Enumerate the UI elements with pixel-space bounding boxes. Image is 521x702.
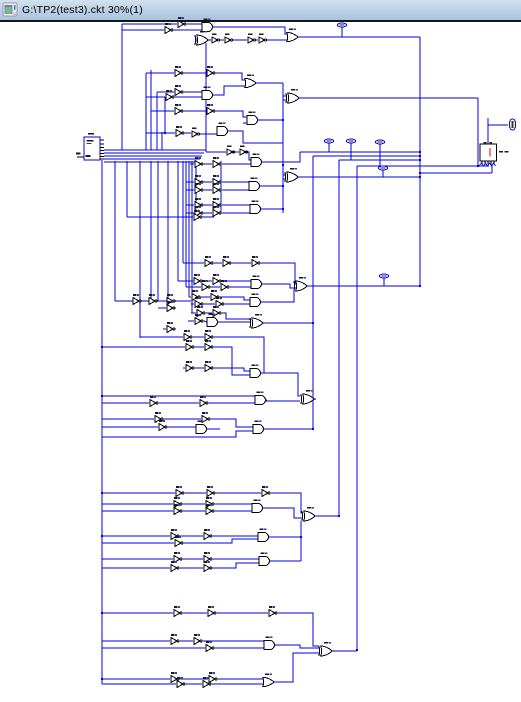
wire U43A out: [168, 426, 196, 428]
wire U20C out: [204, 189, 212, 191]
wire U45A out: [185, 492, 206, 494]
junction dot: [101, 678, 103, 680]
wire E3b in: [186, 212, 194, 214]
wire U23A out: [204, 204, 212, 206]
wire to U52A in1: [213, 558, 259, 560]
inverter U33A: [197, 306, 205, 316]
wire U49C out to U50A in2: [184, 539, 258, 543]
inverter U26A: [205, 256, 213, 266]
wire U40B out to U41B in2: [209, 402, 255, 404]
junction dot: [282, 119, 284, 121]
wire bus line B3: [104, 155, 202, 157]
wire row B1 in: [102, 346, 185, 348]
wire vertical x151: [150, 70, 152, 150]
wire row B3b in: [102, 402, 149, 404]
junction dot: [338, 515, 340, 517]
XOR gate U11A: [286, 89, 301, 103]
inverter U38B: [205, 361, 213, 371]
wire U50A out to wrap: [269, 536, 301, 538]
wire row A4 input: [146, 132, 175, 134]
wire row C3b in: [102, 542, 174, 544]
wire row E4: [127, 216, 193, 218]
wire U29A out to N1: [307, 285, 420, 287]
wire U53C out to U56A in1: [278, 613, 319, 646]
wire U26B out: [232, 262, 251, 264]
inverter U9B: [166, 90, 174, 100]
wire row F3b in: [191, 303, 194, 305]
wire comb vertical x178: [177, 161, 179, 281]
wire vertical x146: [145, 73, 147, 150]
AND gate U21A: [249, 177, 261, 190]
inverter U36C: [205, 330, 213, 340]
wire row B3a feed: [102, 395, 250, 397]
inverter U23A: [195, 198, 203, 208]
inverter U54A: [171, 634, 179, 644]
inverter U53B: [208, 606, 216, 616]
wire U27A out: [203, 280, 212, 282]
inverter U42A: [155, 412, 163, 422]
inverter U51B: [204, 552, 212, 562]
AND gate U43B: [196, 420, 208, 433]
wire N2 to U22A in2: [283, 178, 285, 180]
inverter U9A: [175, 85, 183, 95]
wire display pin drop: [491, 164, 493, 173]
junction dot: [101, 612, 103, 614]
inverter U23D: [213, 206, 221, 216]
wire U28A out to U29A in2: [262, 284, 296, 288]
XOR gate U35A: [250, 314, 265, 328]
junction dot: [356, 649, 358, 651]
wire U25A out: [203, 216, 214, 218]
XOR gate U41A: [301, 390, 316, 404]
wire U24A out to N2: [261, 208, 283, 210]
wire U38B out to U39A in1: [214, 368, 250, 371]
wire wrap vertical x301: [300, 521, 302, 561]
wire U9A out to U10A in1: [184, 91, 202, 93]
wire row D1 in: [102, 612, 173, 614]
wire U54B out to U55A in1: [203, 640, 264, 642]
wire U46C out: [183, 510, 205, 512]
inverter U31C: [195, 297, 203, 307]
inverter U25A: [194, 210, 202, 220]
wire U33C out: [204, 321, 207, 322]
wire U17B out to U19A in1: [246, 152, 251, 160]
wire row A3 input: [151, 110, 174, 112]
inverter U23B: [213, 198, 221, 208]
wire U21A out to N2: [260, 185, 283, 187]
inverter U46A: [174, 497, 182, 507]
inverter U49C: [175, 536, 183, 546]
wire U7A out: [184, 72, 206, 74]
wire row D2b in: [102, 647, 205, 649]
wire U44A out to x313: [264, 428, 313, 430]
XOR gate U5A: [195, 31, 210, 45]
wire U3A out to U4A in1: [213, 27, 287, 34]
wire net A2: [122, 29, 164, 31]
wire to connector J1: [488, 124, 508, 126]
wire U48A out to x339: [315, 515, 339, 517]
wire U42A out: [164, 418, 201, 420]
wire U1A out to U3A in1: [187, 23, 202, 25]
wire U33B out to U34A: [222, 313, 251, 319]
wire U23C out: [204, 212, 212, 214]
junction dot: [282, 164, 284, 166]
IC U16 chip body: [84, 133, 100, 160]
AND gate U32A: [250, 293, 262, 306]
inverter U37B: [205, 340, 213, 350]
inverter U6C: [248, 34, 256, 43]
wire U57A out: [180, 678, 208, 680]
OR gate U8A: [245, 74, 258, 87]
wire U53B out: [217, 612, 268, 614]
7-segment display DISP1: [480, 142, 509, 165]
inverter U6B: [225, 34, 233, 43]
OR gate U58A: [263, 673, 276, 686]
inverter U45C: [262, 486, 270, 496]
AND gate U34A: [207, 313, 219, 326]
inverter U57D: [203, 677, 211, 687]
wire U38A out: [195, 367, 204, 369]
junction dot: [282, 185, 284, 187]
inverter U7B: [207, 66, 215, 76]
wire U19A out to L1: [262, 152, 300, 162]
wire B3a to U41B in1: [250, 395, 255, 397]
wire U5A out: [210, 39, 211, 41]
IC U16 left pin: [76, 153, 84, 158]
wire vertical x162: [161, 132, 163, 150]
wire U26A out: [214, 262, 222, 264]
wire row F5 in: [140, 336, 183, 338]
wire long vertical x313: [312, 156, 314, 430]
wire U22A out to N1: [298, 176, 420, 178]
wire comb vertical x115: [114, 161, 116, 301]
junction dot: [101, 535, 103, 537]
wire to U58A in2: [212, 683, 263, 685]
AND gate U10A: [202, 86, 214, 99]
wire net L5: [420, 172, 492, 174]
wire U52A out to wrap: [270, 560, 301, 562]
junction dot: [312, 428, 314, 430]
inverter U37A: [186, 340, 194, 350]
AND gate U19A: [251, 153, 263, 166]
inverter U17A: [227, 146, 235, 155]
inverter U53A: [174, 606, 182, 616]
junction dot: [419, 151, 421, 153]
wire U57C out: [186, 683, 202, 685]
wire long vertical x357: [356, 166, 358, 651]
wire U6D out to U4A in2: [266, 39, 287, 41]
app icon: [2, 2, 20, 18]
inverter U57B: [209, 672, 217, 682]
wire U13A in2 stub: [243, 122, 247, 124]
wire U58A out to U56A in2: [274, 653, 319, 682]
inverter U18B: [213, 157, 221, 167]
inverter U30D: [133, 294, 141, 304]
wire U20A out: [204, 181, 212, 183]
wire comb vertical x186: [185, 161, 187, 287]
inverter U46D: [206, 504, 214, 514]
wire U4A out to node N1: [298, 36, 420, 38]
wire to U24A in1: [222, 204, 250, 206]
wire U30C in: [158, 307, 166, 309]
inverter U40A: [150, 396, 158, 406]
wire row C4b in: [102, 567, 170, 569]
inverter U6D: [259, 34, 267, 43]
wire N2 to U11A in1: [283, 95, 286, 97]
wire row C2a in: [102, 503, 173, 505]
wire net L3: [339, 159, 420, 161]
inverter U12A: [175, 104, 183, 114]
inverter U31A: [192, 290, 200, 300]
wire net A1 top: [122, 23, 177, 25]
wire U41A out junction: [313, 399, 315, 400]
wire row B2 in: [183, 367, 185, 369]
wire to U24A in2: [222, 212, 250, 214]
inverter U36A: [167, 322, 175, 332]
inverter U54C: [206, 641, 214, 651]
junction dot: [164, 132, 166, 134]
wire U54C out to U55A in2: [215, 647, 264, 649]
inverter U20A: [195, 175, 203, 185]
wire comb vertical x183: [182, 161, 184, 263]
wire U14A out: [185, 132, 191, 134]
inverter U17B: [240, 146, 248, 155]
inverter U20D: [213, 183, 221, 193]
inverter U31B: [211, 290, 219, 300]
wire U32A out wrap: [261, 289, 294, 302]
wire U15A out to N2: [228, 131, 283, 143]
inverter U49B: [204, 529, 212, 539]
AND gate U52A: [259, 552, 271, 565]
wire comb vertical x221: [220, 161, 222, 213]
wire display top stem: [487, 118, 489, 144]
wire to U28A in1: [222, 280, 251, 282]
inverter U27B: [213, 274, 221, 284]
inverter U33B: [213, 306, 221, 316]
wire U6C out: [255, 39, 258, 41]
junction dot: [101, 346, 103, 348]
wire bus line B4: [104, 158, 200, 160]
wire N2 to U11A in2: [283, 99, 286, 101]
wire long vertical x102: [101, 160, 103, 684]
inverter U1A: [178, 17, 186, 27]
XOR gate U29A: [294, 277, 309, 291]
wire to U32A in1: [220, 297, 250, 300]
wire net L4 display bus: [357, 165, 489, 167]
wire U35A out to x313: [264, 322, 313, 324]
inverter U27A: [194, 274, 202, 284]
inverter U51D: [204, 561, 212, 571]
inverter U38A: [186, 361, 194, 371]
wire comb vertical x168: [167, 161, 169, 308]
wire vertical x206 to bus: [205, 43, 207, 152]
junction dot: [419, 176, 421, 178]
wire U6B out: [232, 39, 247, 41]
wire U41B out to U41A in2: [266, 400, 300, 402]
inverter U54B: [194, 634, 202, 644]
inverter U14A: [176, 126, 184, 136]
wire row C1 in: [102, 492, 175, 494]
inverter U57A: [171, 672, 179, 682]
wire U8A out to node N2: [256, 82, 283, 84]
AND gate U50A: [258, 528, 270, 541]
wire row A2a input: [146, 72, 174, 74]
wire row B4a in: [102, 418, 154, 420]
wire row B5 wrap: [102, 431, 253, 437]
wire U11A out to display net: [299, 97, 478, 99]
wire bus line B1: [104, 149, 206, 151]
junction dot: [419, 159, 421, 161]
wire E3a in: [186, 204, 194, 206]
wire U45B out: [216, 492, 261, 494]
wire to U52A in2: [213, 563, 259, 568]
wire U36C out down to band B: [214, 337, 264, 373]
junction dot: [101, 395, 103, 397]
wire U31A out: [201, 296, 210, 298]
wire to U21A in1: [222, 181, 249, 183]
wire comb vertical x127: [126, 161, 128, 217]
wire U46A out: [183, 503, 205, 505]
inverter U51A: [174, 552, 182, 562]
wire row B4b in: [102, 426, 158, 428]
wire U27C out: [211, 286, 220, 288]
wire U55A out to U56A: [276, 645, 319, 648]
AND gate U28A: [251, 275, 263, 288]
wire row C3a in: [102, 535, 170, 537]
AND gate U24A: [250, 200, 262, 213]
power flag F6: [379, 274, 388, 286]
wire net L2: [313, 155, 420, 157]
inverter U57C: [177, 677, 185, 687]
wire vertical x165 wrap: [164, 97, 166, 133]
XOR gate U48A: [302, 507, 317, 521]
AND gate U15A: [217, 122, 229, 135]
inverter U26C: [252, 256, 260, 266]
wire E2a in: [186, 181, 194, 183]
wire N2 to U22A in1: [283, 174, 285, 176]
wire F5 stub: [163, 328, 166, 330]
wire comb vertical x151: [150, 161, 152, 301]
wire comb vertical x140: [139, 161, 141, 338]
wire U56A out to x357: [334, 650, 357, 652]
wire vertical bus N1: [419, 37, 421, 287]
AND gate U55A: [264, 636, 276, 649]
wire U2A out to U3A in2: [174, 29, 202, 31]
wire row F3a in: [189, 296, 191, 298]
wire to U47A in2: [215, 510, 252, 512]
inverter U46C: [174, 504, 182, 514]
wire U10A out to U8A in2: [213, 86, 245, 95]
inverter U2A: [165, 23, 173, 33]
AND gate U3A: [202, 18, 214, 31]
wire U26C out to U29A in1: [261, 263, 296, 284]
wire comb vertical x189: [188, 161, 190, 297]
wire vertical x157: [156, 92, 158, 150]
inverter U27D: [221, 280, 229, 290]
wire vertical x122 to bus: [121, 24, 123, 150]
wire row C4a in: [102, 558, 173, 560]
wire U54A out: [180, 640, 193, 642]
inverter U12B: [207, 104, 215, 114]
wire U34A out to U35A: [218, 321, 250, 323]
power flag F2: [324, 139, 333, 152]
junction dot: [101, 492, 103, 494]
wire to U32A in2: [225, 303, 250, 305]
wire U43B out: [207, 428, 220, 430]
inverter U36B: [184, 330, 192, 340]
inverter U51C: [171, 561, 179, 571]
window title bar: [0, 0, 521, 22]
OR gate U4A: [287, 28, 300, 41]
inverter U42B: [202, 412, 210, 422]
IC U16 right pins: [101, 140, 105, 159]
junction dot: [477, 165, 479, 167]
wire to U58A in1: [218, 678, 263, 680]
wire U51A out: [183, 558, 203, 560]
wire U33A out: [206, 312, 212, 314]
wire bus line B5: [104, 161, 198, 163]
wire comb vertical x196: [195, 161, 197, 205]
inverter U14B: [192, 128, 200, 137]
wire row A2b input: [157, 91, 174, 93]
inverter U23C: [195, 206, 203, 216]
wire U14B out to U15A: [199, 133, 217, 135]
inverter U20B: [213, 175, 221, 185]
wire row D3a in: [102, 678, 170, 680]
wire U9B out to U10A in2: [175, 96, 202, 98]
wire row A2c input: [146, 96, 165, 98]
wire U7B out to U8A in1: [216, 73, 245, 80]
inverter U27C: [202, 280, 210, 290]
wire E1 in: [190, 163, 194, 165]
wire U45C out to U48A in1: [271, 493, 302, 513]
inverter U7A: [175, 66, 183, 76]
inverter U31D: [216, 297, 224, 307]
wire U6A out: [219, 39, 224, 41]
wire vertical x283 bus: [282, 83, 284, 213]
AND gate U13A: [247, 111, 259, 124]
inverter U49A: [171, 529, 179, 539]
inverter U45A: [176, 486, 184, 496]
wire to U21A in2: [222, 189, 249, 191]
wire E2b in: [186, 189, 194, 191]
connector J1: [509, 119, 515, 130]
wire row D2a in: [102, 640, 170, 642]
wire comb vertical x158: [157, 161, 159, 301]
wire row F3 feed: [115, 300, 191, 302]
junction dot: [312, 322, 314, 324]
wire net L1 to N1: [300, 151, 420, 153]
wire U39A out to U41A in1: [261, 373, 300, 396]
wire U37A out: [195, 346, 204, 348]
wire row C2b in: [102, 510, 173, 512]
wire U12A out: [184, 110, 206, 112]
inverter U30A: [149, 294, 157, 304]
inverter U26B: [223, 256, 231, 266]
wire U49B out to U50A in1: [213, 535, 258, 537]
wire row F4b in: [188, 320, 194, 322]
AND gate U47A: [252, 499, 264, 512]
inverter U45B: [207, 486, 215, 496]
wire to U47A in1: [215, 503, 252, 505]
inverter U43A: [159, 420, 167, 430]
wire row F2b in: [186, 286, 201, 288]
wire row F4a in: [191, 312, 196, 314]
wire U17A-U17B: [233, 151, 239, 153]
display pin zigzag bus: [479, 163, 496, 166]
wire comb vertical x192: [191, 161, 193, 313]
wire U42B out to U44A in1: [211, 419, 253, 427]
